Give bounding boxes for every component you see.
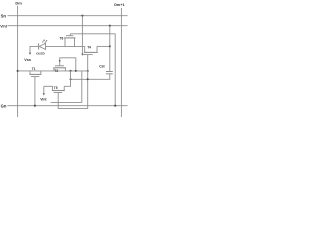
junction stub on node wire: [75, 70, 77, 72]
transistor T5 gate bar: [54, 92, 63, 94]
transistor T5 left wire: [44, 85, 53, 87]
junction T4 gate net on Cst bottom wire: [87, 78, 89, 80]
power Vint arrowhead: [43, 93, 45, 95]
wire OLED cathode left lead: [30, 46, 38, 52]
svg-text:T6: T6: [60, 36, 64, 40]
transistor T4 channel: [84, 51, 98, 53]
svg-text:OLED: OLED: [36, 51, 45, 55]
wire Cst bottom lead: [71, 74, 110, 80]
junction node wire on left data line: [17, 70, 19, 72]
transistor T4 right leg: [96, 46, 98, 52]
transistor T6 left leg: [64, 38, 66, 46]
label Cst: [99, 64, 105, 68]
junction Vint tap on anode wire: [109, 45, 111, 47]
transistor T6 right leg: [74, 38, 76, 46]
transistor T2 gate bar: [55, 65, 64, 67]
node Vint (init rail label): [0, 24, 8, 28]
wire storage node horizontal y=70.9: [18, 70, 89, 72]
contact blob on T2 gate lead: [59, 60, 61, 62]
svg-text:Dm: Dm: [15, 1, 22, 6]
arrowhead at bottom of Sn drop: [81, 54, 83, 56]
wire Sn drop vertical x=82.4: [81, 16, 83, 55]
transistor T2 channel: [53, 67, 66, 69]
label Vint (bottom): [40, 98, 47, 102]
diode OLED cathode bar: [38, 43, 40, 49]
svg-text:T5: T5: [54, 86, 58, 90]
svg-text:T1: T1: [32, 67, 36, 71]
node Gn (bottom scan line label): [1, 104, 7, 109]
label Vss: [24, 58, 31, 62]
wire scan line Sn horizontal y=15.7: [8, 15, 128, 17]
transistor T1 gate lead down to Gn: [34, 77, 36, 106]
transistor T6 gate lead: [69, 34, 71, 36]
junction branch x=70.5 on node wire: [70, 70, 72, 72]
capacitor Cst bottom plate: [106, 73, 113, 75]
junction Sn/T4-gate drop: [81, 15, 83, 17]
diode OLED triangle: [39, 43, 45, 49]
transistor T1 gate bar: [31, 76, 39, 78]
wire right data line vertical x=121.4: [120, 8, 122, 117]
transistor T1 left leg: [29, 71, 31, 74]
svg-text:Gn: Gn: [1, 104, 7, 109]
transistor T4 gate bar: [82, 54, 92, 56]
wire T4 right to Vint tap y=46.4: [97, 45, 110, 47]
svg-text:Vss: Vss: [24, 58, 31, 62]
transistor T6 channel: [64, 37, 76, 39]
wire Vint rail horizontal y=25.7: [8, 25, 128, 27]
capacitor Cst top plate: [106, 71, 113, 73]
junction T4 gate on node wire: [87, 70, 89, 72]
label T4: [87, 45, 91, 49]
transistor T5 channel: [52, 90, 65, 92]
wire Vint tap vertical x=109.8 upper: [109, 26, 111, 47]
wire Gn line horizontal y=105.7: [7, 105, 127, 107]
label T6: [60, 36, 64, 40]
wire branch x=70.5 down to T5 wire: [64, 71, 70, 86]
transistor T2 gate lead up and over to storage node: [60, 58, 76, 71]
label OLED: [36, 51, 45, 55]
junction Vint tap on Vint rail: [109, 25, 111, 27]
svg-text:Cst: Cst: [99, 64, 105, 68]
wire emission net: T6 gate to Gn via right vertical: [70, 34, 115, 106]
wire T4/T5 gate net: down, under Gn, up to T5 gate: [58, 71, 87, 108]
power Vss arrowhead: [29, 53, 31, 55]
transistor T1 right leg: [40, 71, 42, 74]
wire OLED anode to T6/T4 y=46.4: [46, 45, 85, 47]
junction emission net on Gn: [114, 105, 116, 107]
wire Vint tap vertical to Cst top: [109, 46, 111, 71]
label T1: [32, 67, 36, 71]
transistor T6 gate bar: [66, 35, 73, 37]
junction T1 gate on Gn: [34, 105, 36, 107]
label T5: [54, 86, 58, 90]
wire branch x=81.8 down to y=102.4 stub: [51, 71, 82, 103]
transistor T1 channel: [29, 73, 41, 75]
svg-text:Vint: Vint: [0, 24, 8, 28]
svg-text:Vint: Vint: [40, 98, 47, 102]
node Dm+1 (right data line label): [114, 3, 124, 7]
transistor T5 right leg: [63, 86, 65, 90]
light emission arrow 1: [42, 40, 45, 43]
transistor T2 right leg: [64, 68, 66, 71]
wire left data line vertical x=17.6: [17, 6, 19, 117]
junction Cst route on x=70.5 branch: [70, 78, 72, 80]
label T2: [54, 69, 58, 73]
svg-text:Dm+1: Dm+1: [114, 3, 124, 7]
transistor T5 left leg: [52, 86, 54, 90]
svg-text:Sn: Sn: [1, 13, 7, 18]
node Dm (left data line label): [15, 1, 22, 6]
node Sn (scan line label): [1, 13, 7, 18]
light emission arrow 2: [44, 40, 47, 43]
transistor T4 gate lead down to storage node: [87, 55, 89, 71]
transistor T2 left leg: [53, 68, 55, 71]
svg-text:T4: T4: [87, 45, 91, 49]
wire Vint init drop: [43, 86, 45, 93]
svg-text:T2: T2: [54, 69, 58, 73]
transistor T4 left leg: [84, 46, 86, 52]
